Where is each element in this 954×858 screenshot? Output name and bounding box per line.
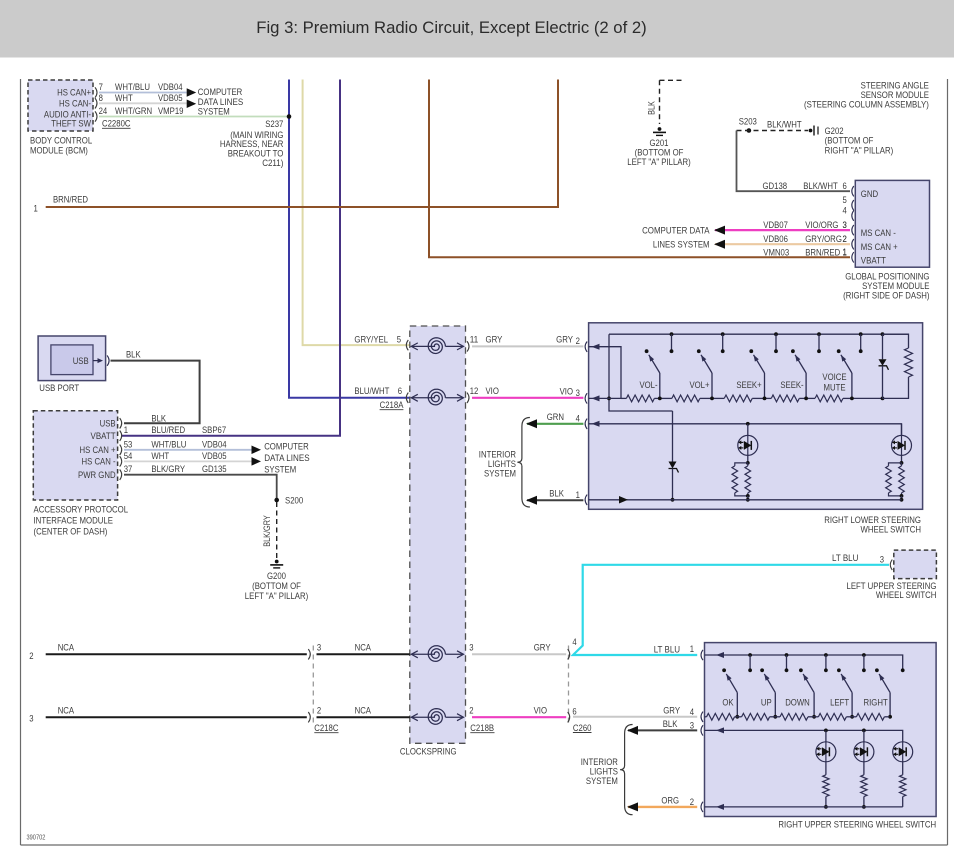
svg-text:RIGHT: RIGHT (864, 698, 888, 709)
svg-text:BLK: BLK (151, 413, 166, 424)
svg-text:INTERFACE MODULE: INTERFACE MODULE (34, 516, 114, 527)
svg-text:GRN: GRN (547, 412, 564, 423)
svg-text:1: 1 (843, 247, 847, 258)
svg-text:6: 6 (843, 181, 847, 192)
svg-text:2: 2 (29, 651, 33, 662)
svg-text:COMPUTER: COMPUTER (264, 441, 309, 452)
svg-text:VMP19: VMP19 (158, 106, 184, 117)
svg-text:24: 24 (99, 106, 108, 117)
svg-text:USB PORT: USB PORT (39, 383, 79, 394)
svg-text:5: 5 (397, 335, 401, 346)
svg-text:BLK/WHT: BLK/WHT (767, 119, 802, 130)
svg-text:VIO: VIO (560, 387, 573, 398)
svg-text:DOWN: DOWN (785, 698, 810, 709)
svg-text:3: 3 (880, 555, 884, 566)
svg-text:VDB06: VDB06 (763, 234, 788, 245)
svg-text:USB: USB (73, 356, 89, 367)
svg-text:OK: OK (722, 698, 734, 709)
svg-text:WHT: WHT (115, 93, 133, 104)
svg-text:8: 8 (99, 93, 103, 104)
svg-text:VBATT: VBATT (861, 255, 886, 266)
svg-text:NCA: NCA (355, 705, 372, 716)
svg-text:HS CAN-: HS CAN- (59, 99, 91, 110)
svg-text:SYSTEM: SYSTEM (586, 776, 618, 787)
svg-text:VDB04: VDB04 (202, 439, 227, 450)
svg-text:WHEEL SWITCH: WHEEL SWITCH (861, 524, 922, 535)
svg-text:S203: S203 (739, 116, 757, 127)
svg-text:BLK/GRY: BLK/GRY (151, 464, 185, 475)
svg-text:NCA: NCA (58, 642, 75, 653)
svg-text:GRY/ORG: GRY/ORG (805, 234, 842, 245)
svg-text:3: 3 (317, 642, 321, 653)
svg-text:SYSTEM: SYSTEM (264, 465, 296, 476)
svg-text:THEFT SW: THEFT SW (51, 119, 91, 130)
svg-text:GND: GND (861, 189, 878, 200)
svg-text:VOL+: VOL+ (689, 380, 709, 391)
svg-text:VOICE: VOICE (822, 372, 846, 383)
svg-text:4: 4 (843, 205, 848, 216)
svg-text:S200: S200 (285, 496, 303, 507)
svg-text:11: 11 (470, 335, 479, 346)
svg-text:RIGHT UPPER STEERING WHEEL SWI: RIGHT UPPER STEERING WHEEL SWITCH (778, 819, 936, 830)
svg-text:2: 2 (843, 234, 847, 245)
svg-text:37: 37 (124, 464, 133, 475)
svg-text:ACCESSORY PROTOCOL: ACCESSORY PROTOCOL (34, 505, 129, 516)
svg-text:MUTE: MUTE (824, 383, 846, 394)
svg-text:7: 7 (99, 82, 103, 93)
svg-text:LT BLU: LT BLU (832, 553, 858, 564)
svg-text:GRY: GRY (486, 335, 503, 346)
svg-text:53: 53 (124, 439, 133, 450)
svg-text:2: 2 (576, 336, 580, 347)
svg-text:VOL-: VOL- (639, 380, 657, 391)
svg-text:BRN/RED: BRN/RED (53, 195, 88, 206)
svg-text:VDB05: VDB05 (158, 93, 183, 104)
svg-text:3: 3 (29, 714, 33, 725)
svg-text:4: 4 (690, 707, 695, 718)
svg-text:4: 4 (576, 413, 581, 424)
svg-text:LINES SYSTEM: LINES SYSTEM (653, 240, 710, 251)
svg-text:LEFT "A" PILLAR): LEFT "A" PILLAR) (245, 591, 308, 602)
svg-text:MS CAN +: MS CAN + (861, 242, 898, 253)
svg-text:WHT/BLU: WHT/BLU (151, 439, 186, 450)
svg-text:2: 2 (317, 705, 321, 716)
svg-text:MODULE (BCM): MODULE (BCM) (30, 146, 88, 157)
svg-text:GD138: GD138 (763, 181, 788, 192)
svg-text:BLK: BLK (647, 101, 657, 115)
svg-text:LEFT "A" PILLAR): LEFT "A" PILLAR) (627, 157, 690, 168)
svg-text:MS CAN -: MS CAN - (861, 228, 896, 239)
svg-text:BLK: BLK (126, 350, 141, 361)
svg-text:GRY: GRY (534, 642, 551, 653)
svg-text:HS CAN -: HS CAN - (82, 457, 116, 468)
svg-text:(STEERING COLUMN ASSEMBLY): (STEERING COLUMN ASSEMBLY) (804, 99, 929, 110)
svg-text:3: 3 (843, 220, 847, 231)
svg-text:VDB04: VDB04 (158, 82, 183, 93)
svg-text:BLU/RED: BLU/RED (151, 425, 185, 436)
svg-text:BLK: BLK (663, 719, 678, 730)
svg-text:S237: S237 (265, 119, 283, 130)
svg-text:SEEK-: SEEK- (780, 380, 803, 391)
svg-text:3: 3 (576, 388, 580, 399)
svg-text:(CENTER OF DASH): (CENTER OF DASH) (34, 527, 108, 538)
svg-text:VDB07: VDB07 (763, 220, 788, 231)
svg-text:BLK: BLK (549, 489, 564, 500)
svg-text:NCA: NCA (355, 642, 372, 653)
svg-text:CLOCKSPRING: CLOCKSPRING (400, 746, 457, 757)
svg-text:5: 5 (843, 195, 847, 206)
svg-text:2: 2 (690, 797, 694, 808)
svg-text:BLU/WHT: BLU/WHT (354, 386, 389, 397)
svg-text:SEEK+: SEEK+ (736, 380, 762, 391)
svg-text:SBP67: SBP67 (202, 425, 226, 436)
svg-text:WHT/GRN: WHT/GRN (115, 106, 152, 117)
svg-text:VIO: VIO (534, 705, 547, 716)
svg-text:BLK/GRY: BLK/GRY (262, 515, 272, 547)
svg-text:1: 1 (576, 490, 580, 501)
svg-text:VDB05: VDB05 (202, 451, 227, 462)
svg-text:VBATT: VBATT (91, 431, 116, 442)
svg-text:HS CAN +: HS CAN + (80, 445, 116, 456)
svg-text:VIO: VIO (486, 386, 499, 397)
svg-text:LEFT: LEFT (830, 698, 849, 709)
svg-text:ORG: ORG (661, 795, 679, 806)
svg-text:UP: UP (761, 698, 772, 709)
svg-text:3: 3 (469, 642, 473, 653)
svg-text:1: 1 (34, 204, 38, 215)
svg-text:LT BLU: LT BLU (654, 644, 680, 655)
svg-text:6: 6 (398, 386, 402, 397)
svg-text:WHEEL SWITCH: WHEEL SWITCH (876, 590, 937, 601)
svg-text:390702: 390702 (27, 835, 46, 842)
svg-text:BLK/WHT: BLK/WHT (803, 181, 838, 192)
svg-text:GRY: GRY (663, 705, 680, 716)
svg-text:BRN/RED: BRN/RED (805, 247, 840, 258)
svg-text:VMN03: VMN03 (763, 247, 789, 258)
svg-text:SYSTEM: SYSTEM (484, 468, 516, 479)
svg-text:GD135: GD135 (202, 464, 227, 475)
svg-text:1: 1 (690, 644, 694, 655)
svg-text:1: 1 (124, 425, 128, 436)
svg-text:WHT/BLU: WHT/BLU (115, 82, 150, 93)
svg-text:SYSTEM: SYSTEM (198, 106, 230, 117)
svg-text:WHT: WHT (151, 451, 169, 462)
svg-text:VIO/ORG: VIO/ORG (805, 220, 838, 231)
svg-text:USB: USB (100, 419, 116, 430)
svg-text:RIGHT "A" PILLAR): RIGHT "A" PILLAR) (825, 145, 894, 156)
svg-text:PWR GND: PWR GND (78, 470, 116, 481)
svg-text:C211): C211) (262, 158, 283, 169)
svg-text:Fig 3: Premium Radio Circuit,: Fig 3: Premium Radio Circuit, Except Ele… (256, 18, 646, 37)
svg-text:NCA: NCA (58, 705, 75, 716)
svg-text:4: 4 (572, 637, 577, 648)
svg-text:HS CAN+: HS CAN+ (57, 88, 91, 99)
svg-text:DATA LINES: DATA LINES (264, 453, 309, 464)
svg-text:54: 54 (124, 451, 133, 462)
svg-text:3: 3 (690, 720, 694, 731)
svg-text:GRY/YEL: GRY/YEL (354, 335, 388, 346)
svg-text:(RIGHT SIDE OF DASH): (RIGHT SIDE OF DASH) (843, 291, 929, 302)
svg-text:2: 2 (469, 705, 473, 716)
svg-text:COMPUTER DATA: COMPUTER DATA (642, 226, 710, 237)
svg-text:GRY: GRY (556, 335, 573, 346)
svg-text:12: 12 (470, 386, 479, 397)
